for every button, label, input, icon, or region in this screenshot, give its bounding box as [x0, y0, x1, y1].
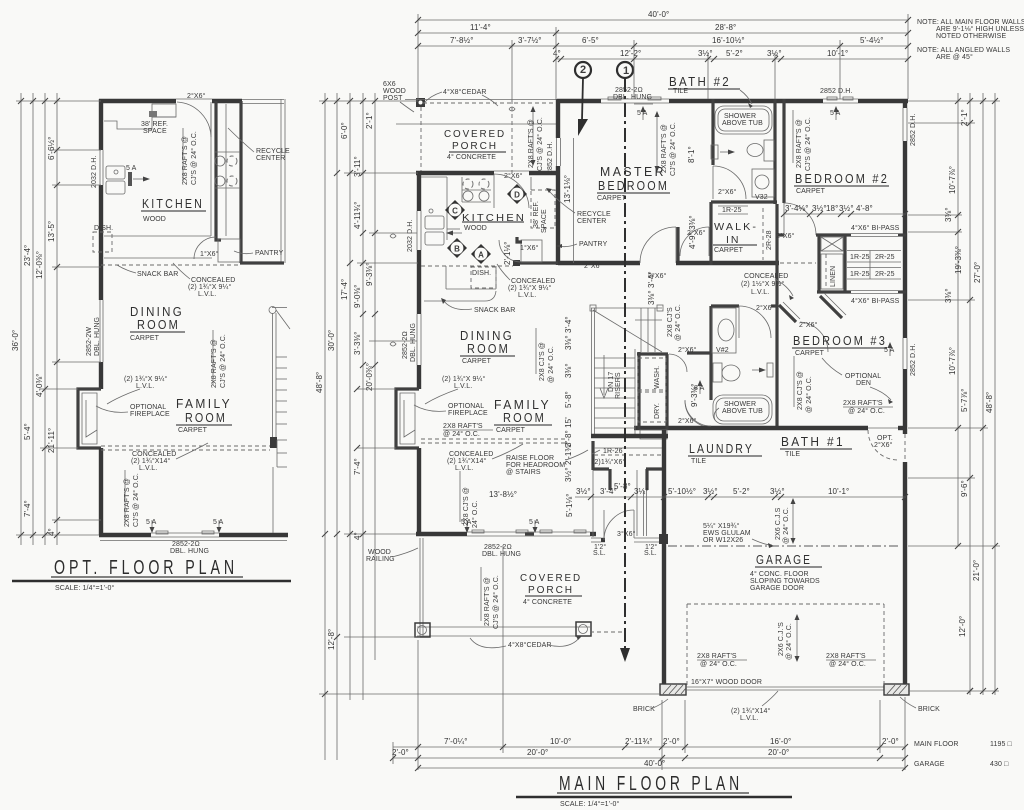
rafter note bedroom2 (rotated)	[796, 119, 803, 168]
svg-text:NOTED OTHERWISE: NOTED OTHERWISE	[936, 33, 1006, 40]
rafter note opt dining (rotated)	[211, 339, 218, 388]
svg-text:CARPET: CARPET	[178, 427, 208, 434]
svg-text:2852-2W: 2852-2W	[86, 327, 93, 356]
linen closet	[821, 254, 843, 289]
svg-text:SCALE: 1/4°=1'-0°: SCALE: 1/4°=1'-0°	[560, 800, 620, 808]
fridge dashed main	[531, 190, 555, 228]
fireplace bump main	[396, 389, 419, 448]
wall: bath2 east	[773, 99, 776, 204]
svg-text:@ 24° O.C.: @ 24° O.C.	[848, 407, 885, 415]
svg-text:ROOM: ROOM	[503, 411, 546, 425]
porch bottom edge	[417, 626, 590, 628]
LEFT PLAN GROUP	[78, 92, 290, 555]
svg-text:5'-2°: 5'-2°	[726, 49, 743, 58]
sa marker master window	[642, 108, 644, 120]
stair treads	[594, 358, 635, 428]
svg-text:5'-10½°: 5'-10½°	[668, 487, 696, 496]
svg-text:CARPET: CARPET	[496, 427, 526, 434]
diamond marker C	[445, 200, 465, 220]
stairs ladder opt right	[269, 307, 276, 314]
TITLES	[12, 557, 792, 808]
svg-text:L.V.L.: L.V.L.	[455, 465, 473, 472]
svg-text:4'-11¾°: 4'-11¾°	[353, 201, 362, 229]
svg-text:2: 2	[580, 64, 586, 76]
closet stubs	[608, 469, 611, 490]
svg-text:OR W12X26: OR W12X26	[703, 537, 743, 544]
svg-text:MAIN FLOOR: MAIN FLOOR	[914, 741, 959, 748]
svg-text:36'-0°: 36'-0°	[11, 330, 20, 351]
svg-text:2852-2Ω: 2852-2Ω	[615, 87, 643, 94]
svg-text:CJ'S @ 24° O.C.: CJ'S @ 24° O.C.	[219, 334, 227, 388]
bipass door bedroom2 closet	[851, 233, 898, 235]
garage bottom pier left	[660, 684, 686, 695]
wall: main left seg4	[417, 448, 421, 536]
wall: bedroom2 south right stub	[898, 233, 906, 236]
section circle 1	[617, 62, 633, 78]
svg-text:3½°: 3½°	[812, 204, 827, 213]
concealed dashed family main	[421, 438, 566, 440]
bottom dim row B	[393, 757, 905, 759]
svg-text:27'-0°: 27'-0°	[973, 262, 982, 283]
svg-text:2°X6°: 2°X6°	[504, 172, 523, 180]
bottom extension lines	[417, 640, 419, 770]
wall: bedroom3 north	[817, 290, 851, 293]
svg-text:10'-1°: 10'-1°	[827, 49, 848, 58]
corner post hall/garage	[659, 534, 668, 544]
wall: walkin west	[709, 202, 712, 265]
svg-text:3¼°: 3¼°	[634, 487, 649, 496]
svg-text:16°X7° WOOD DOOR: 16°X7° WOOD DOOR	[691, 678, 762, 686]
svg-text:BRICK: BRICK	[633, 706, 655, 713]
svg-text:@ 24° O.C.: @ 24° O.C.	[674, 304, 682, 341]
door arc laundry	[669, 354, 687, 372]
pantry south wall	[517, 261, 558, 264]
svg-text:16'-10½°: 16'-10½°	[712, 36, 745, 45]
svg-text:12'-2°: 12'-2°	[620, 49, 641, 58]
sidelight window	[634, 537, 660, 539]
bipass door bedroom3 closet	[851, 290, 898, 292]
svg-text:2°X6°: 2°X6°	[718, 188, 737, 196]
svg-text:A: A	[478, 251, 484, 260]
dim line col3	[44, 93, 46, 545]
svg-text:2X6 C.J.S: 2X6 C.J.S	[775, 507, 782, 540]
svg-text:5'-8°: 5'-8°	[564, 391, 573, 408]
wall: bath2 west upper	[711, 99, 714, 165]
svg-text:20'-0°: 20'-0°	[768, 748, 789, 757]
dim label 21-11	[47, 428, 56, 453]
wall: kitchen top seg1	[416, 171, 494, 175]
svg-text:4'-9° 3⅜°: 4'-9° 3⅜°	[688, 215, 697, 249]
front door gap + arc	[604, 510, 634, 540]
section line 2 stub	[582, 78, 583, 120]
window: bedroom2 top	[823, 98, 858, 100]
door arc bedroom2	[784, 203, 816, 235]
window: bedroom2 right	[902, 108, 904, 141]
wall: bedroom2 south stub	[777, 233, 784, 236]
svg-text:2852-2Ω: 2852-2Ω	[172, 541, 200, 548]
svg-text:(2)1¾°X6°: (2)1¾°X6°	[592, 458, 625, 466]
svg-text:2°X6°: 2°X6°	[187, 92, 206, 100]
svg-text:BATH #2: BATH #2	[669, 75, 731, 89]
svg-text:2R-25: 2R-25	[875, 254, 895, 261]
svg-text:WOOD: WOOD	[368, 549, 391, 556]
svg-text:7'-4°: 7'-4°	[353, 458, 362, 475]
door leaf front	[633, 510, 635, 538]
porch extension line	[396, 123, 557, 125]
wall: right seg3	[903, 369, 907, 434]
wall: south seg right	[898, 426, 906, 430]
snack bar dashed line main	[421, 265, 513, 267]
svg-text:3'-4⅛°: 3'-4⅛°	[785, 204, 809, 213]
wall: right seg4 garage	[903, 462, 907, 689]
svg-text:RECYCLE: RECYCLE	[256, 148, 290, 155]
svg-text:23'-4°: 23'-4°	[23, 245, 32, 266]
svg-text:2852-2Ω: 2852-2Ω	[402, 331, 409, 359]
closet wall west	[817, 235, 820, 293]
dishwasher dashed opt	[93, 232, 112, 252]
rafter note family main (rotated)	[463, 487, 470, 526]
rafter note porch bottom (rotated)	[484, 577, 491, 626]
svg-text:CARPET: CARPET	[714, 247, 744, 254]
svg-text:13'-8½°: 13'-8½°	[489, 490, 517, 499]
bath1 tub	[713, 395, 772, 424]
svg-text:2°X6°: 2°X6°	[678, 346, 697, 354]
closet wall mid	[843, 235, 846, 293]
angled wall bedroom3 nw	[820, 296, 842, 318]
door arc bedroom3	[800, 322, 828, 352]
svg-text:3½°: 3½°	[839, 204, 854, 213]
wall: wd closet top	[637, 352, 668, 355]
svg-text:V#2: V#2	[716, 347, 729, 354]
window: family bottom double	[467, 531, 590, 533]
window: opt bottom double hung	[151, 532, 219, 534]
svg-text:B: B	[454, 245, 460, 254]
svg-text:1195 □: 1195 □	[990, 741, 1012, 748]
wall: opt plan bottom left seg	[99, 533, 151, 537]
dim label 4	[47, 528, 56, 536]
svg-text:(2) 1¾°X14°: (2) 1¾°X14°	[131, 457, 170, 465]
svg-text:2X8 RAFT'S @: 2X8 RAFT'S @	[661, 124, 668, 173]
MAIN PLAN WALLS	[390, 62, 909, 695]
svg-text:CJ'S @ 24° O.C.: CJ'S @ 24° O.C.	[536, 117, 544, 171]
sa marker hall	[699, 382, 701, 394]
svg-text:4°X6° BI-PASS: 4°X6° BI-PASS	[851, 297, 900, 305]
svg-text:L.V.L.: L.V.L.	[751, 289, 769, 296]
svg-text:FIREPLACE: FIREPLACE	[130, 411, 170, 418]
window: opt left dining	[99, 300, 101, 362]
svg-text:1R-25: 1R-25	[850, 254, 870, 261]
bath2 tub	[715, 106, 772, 134]
wall: opt plan top left segment	[99, 99, 176, 103]
left col labels	[315, 372, 324, 393]
svg-text:@ 24° O.C.: @ 24° O.C.	[443, 430, 480, 438]
top dim row 4	[556, 58, 908, 60]
svg-text:2852 D.H.: 2852 D.H.	[820, 88, 852, 95]
svg-text:CJ'S @ 24° O.C.: CJ'S @ 24° O.C.	[669, 122, 677, 176]
window label 2032 dh opt (rotated)	[91, 156, 98, 188]
svg-text:RISERS: RISERS	[615, 372, 622, 399]
svg-text:CONCEALED: CONCEALED	[744, 273, 788, 280]
svg-text:6X6: 6X6	[383, 81, 396, 88]
svg-text:16'-0°: 16'-0°	[770, 737, 791, 746]
door header opt top	[176, 98, 212, 100]
svg-text:DINING: DINING	[460, 329, 514, 343]
wall: kitchen/master east wall	[556, 99, 560, 138]
svg-text:1R-26: 1R-26	[603, 448, 623, 455]
door arc hall-bath1	[685, 400, 711, 426]
svg-text:@ STAIRS: @ STAIRS	[506, 469, 541, 476]
svg-text:(2) 1¾°X14°: (2) 1¾°X14°	[731, 707, 770, 715]
svg-text:5 A: 5 A	[637, 110, 648, 117]
rafter note dining main (rotated)	[539, 342, 546, 381]
svg-text:8'-1°: 8'-1°	[687, 146, 696, 163]
section circle 2	[575, 62, 591, 78]
svg-text:5'-1⅛°: 5'-1⅛°	[565, 493, 574, 517]
svg-text:(2) 1¾°X14°: (2) 1¾°X14°	[447, 457, 486, 465]
svg-text:S.L.: S.L.	[644, 550, 657, 557]
garage door line	[686, 689, 884, 691]
svg-text:4°: 4°	[47, 528, 56, 536]
svg-text:30'-0°: 30'-0°	[327, 330, 336, 351]
porch dashed line to section	[590, 631, 625, 633]
svg-text:13'-1⅛°: 13'-1⅛°	[563, 175, 572, 203]
svg-text:2°X6°: 2°X6°	[584, 262, 603, 270]
wall: opt plan left below fireplace	[99, 448, 103, 535]
wall: laundry west / stairs east	[637, 352, 640, 430]
svg-text:GARAGE DOOR: GARAGE DOOR	[750, 585, 804, 592]
wall: family bottom seg2	[590, 532, 596, 536]
svg-text:3⅜°: 3⅜°	[944, 288, 953, 303]
bath2 sink marker	[711, 145, 718, 159]
wall: opt plan right edge upper	[280, 99, 282, 263]
svg-text:3½°: 3½°	[767, 49, 782, 58]
svg-text:DBL. HUNG: DBL. HUNG	[613, 94, 652, 101]
bottom dim row C	[418, 767, 905, 769]
svg-text:ABOVE TUB: ABOVE TUB	[722, 408, 763, 415]
top dim row 2	[418, 32, 908, 34]
kitchen counter edge main	[446, 177, 448, 240]
section line 1 vertical	[624, 78, 626, 652]
svg-text:PORCH: PORCH	[452, 140, 498, 152]
svg-text:1°X6°: 1°X6°	[520, 244, 539, 252]
svg-text:ABOVE TUB: ABOVE TUB	[722, 120, 763, 127]
dishwasher dashed main	[471, 267, 496, 288]
wall: opt plan left lower	[99, 362, 103, 389]
svg-text:@ 24° O.C.: @ 24° O.C.	[782, 507, 790, 544]
svg-text:@ 24° O.C.: @ 24° O.C.	[805, 376, 813, 413]
wall: opt plan left mid	[99, 185, 103, 300]
snack bar dashed opt	[101, 264, 240, 266]
svg-text:CARPET: CARPET	[462, 358, 492, 365]
svg-text:9'-3⅜°: 9'-3⅜°	[690, 383, 699, 407]
sa marker opt kitchen	[128, 172, 132, 186]
sidelight left	[591, 537, 601, 539]
right col extension stubs	[908, 100, 1000, 102]
label window right rotated	[910, 114, 917, 146]
svg-text:40'-0°: 40'-0°	[648, 10, 669, 19]
svg-text:4°X8°CEDAR: 4°X8°CEDAR	[443, 88, 487, 96]
svg-text:3⅜° 3'-4°: 3⅜° 3'-4°	[564, 316, 573, 350]
svg-text:2°X6°: 2°X6°	[756, 304, 775, 312]
top tick slashes	[415, 17, 911, 62]
wall: main left seg2	[417, 250, 421, 314]
wall: kitchen top seg2	[529, 171, 558, 175]
svg-text:4° CONC. FLOOR: 4° CONC. FLOOR	[750, 570, 809, 578]
svg-text:1R-25: 1R-25	[850, 271, 870, 278]
svg-text:5 A: 5 A	[213, 519, 224, 526]
porch post bottom left	[415, 623, 430, 637]
svg-text:4°X6° BI-PASS: 4°X6° BI-PASS	[851, 224, 900, 232]
svg-text:2X8 RAFT'S: 2X8 RAFT'S	[697, 653, 737, 660]
dim label 13-5	[47, 221, 56, 242]
svg-text:TILE: TILE	[673, 88, 688, 95]
wall: stair south	[591, 434, 668, 438]
porch top edge line	[405, 99, 557, 101]
svg-text:(2) 1¾°X 9¼°: (2) 1¾°X 9¼°	[188, 283, 231, 291]
svg-text:5'-8°: 5'-8°	[614, 482, 631, 491]
svg-text:MAIN FLOOR PLAN: MAIN FLOOR PLAN	[559, 773, 743, 795]
walkin shelf dashed	[762, 208, 764, 260]
interior dim row hall y497	[575, 496, 906, 498]
wall: family bottom seg1	[416, 532, 467, 536]
svg-text:4° CONCRETE: 4° CONCRETE	[523, 598, 572, 606]
island outline main	[445, 266, 447, 289]
svg-text:2852 D.H.: 2852 D.H.	[547, 142, 554, 174]
svg-text:1R-25: 1R-25	[722, 207, 742, 214]
svg-text:D: D	[514, 191, 520, 200]
porch center dashed vertical	[511, 100, 513, 173]
dim label 5-4	[23, 423, 32, 440]
svg-text:2032 D.H.: 2032 D.H.	[407, 220, 414, 252]
diamond marker B	[447, 238, 467, 258]
wall: opt plan left upper	[99, 99, 103, 150]
dim line col4	[56, 93, 58, 545]
svg-text:2X8 CJ'S: 2X8 CJ'S	[667, 307, 674, 337]
svg-text:CJ'S @ 24° O.C.: CJ'S @ 24° O.C.	[804, 117, 812, 171]
garage bottom pier right	[884, 684, 909, 695]
svg-text:3½°: 3½°	[576, 487, 591, 496]
label linen (rotated)	[830, 266, 837, 287]
vestibule walls	[636, 470, 638, 536]
svg-text:6'-5°: 6'-5°	[582, 36, 599, 45]
rafter note master (rotated)	[661, 124, 668, 173]
svg-text:BEDROOM: BEDROOM	[598, 179, 669, 193]
svg-text:2°X6°: 2°X6°	[874, 441, 893, 449]
svg-text:2'-11¾°: 2'-11¾°	[625, 737, 653, 746]
snack bar counter front	[424, 291, 496, 301]
svg-text:2'-0°: 2'-0°	[663, 737, 680, 746]
cooktop opt burners	[215, 156, 225, 166]
hall west wall lower	[592, 470, 594, 537]
svg-text:CJ'S @ 24° O.C.: CJ'S @ 24° O.C.	[492, 575, 500, 629]
bottom dim row A	[393, 746, 905, 748]
top tick stubs	[16, 100, 101, 102]
porch post top left	[416, 98, 425, 107]
svg-text:L.V.L.: L.V.L.	[454, 383, 472, 390]
svg-text:2X6 C.J.'S: 2X6 C.J.'S	[778, 622, 785, 656]
svg-text:(2) 1¾°X 9¼°: (2) 1¾°X 9¼°	[508, 284, 551, 292]
svg-text:DINING: DINING	[130, 305, 184, 319]
svg-text:430 □: 430 □	[990, 761, 1009, 768]
svg-text:FAMILY: FAMILY	[494, 398, 551, 412]
MAIN PLAN DIMS	[315, 10, 1012, 771]
wall: bath1 north stubs	[711, 304, 739, 307]
top dim row 3	[418, 45, 908, 47]
right dim column	[957, 93, 959, 546]
svg-text:DBL. HUNG: DBL. HUNG	[410, 323, 417, 362]
svg-text:2852-2Ω: 2852-2Ω	[484, 544, 512, 551]
svg-text:OPTIONAL: OPTIONAL	[448, 403, 484, 410]
wall: bath2 south	[711, 200, 777, 203]
wall: hall east	[775, 204, 778, 302]
stairs shaft	[591, 308, 593, 436]
svg-text:RECYCLE: RECYCLE	[577, 211, 611, 218]
dim label 6-6h	[47, 136, 56, 160]
svg-text:CONCEALED: CONCEALED	[191, 277, 235, 284]
svg-text:2'-0°: 2'-0°	[882, 737, 899, 746]
svg-text:CJ'S @ 24° O.C.: CJ'S @ 24° O.C.	[190, 131, 198, 185]
svg-text:5'-4½°: 5'-4½°	[860, 36, 884, 45]
svg-text:ROOM: ROOM	[467, 342, 510, 356]
svg-text:WALK-: WALK-	[714, 221, 758, 233]
svg-text:BEDROOM #2: BEDROOM #2	[795, 172, 889, 186]
svg-text:4'-0⅜°: 4'-0⅜°	[35, 373, 44, 397]
porch bottom left edge	[419, 538, 421, 636]
svg-text:SPACE: SPACE	[541, 209, 548, 233]
door arc bath2	[713, 166, 746, 199]
svg-text:1°X6°: 1°X6°	[200, 250, 219, 258]
wall: laundry/bath/bed3 south	[634, 426, 868, 430]
svg-text:10'-0°: 10'-0°	[550, 737, 571, 746]
svg-text:5 A: 5 A	[146, 519, 157, 526]
svg-text:SHOWER: SHOWER	[724, 113, 756, 120]
bath1 vanity	[712, 308, 736, 353]
svg-text:7'-4°: 7'-4°	[23, 500, 32, 517]
window: opt left sink	[99, 150, 101, 185]
svg-text:BEDROOM #3: BEDROOM #3	[793, 334, 887, 348]
wall: bath1 east	[775, 302, 778, 427]
svg-text:OPT.: OPT.	[877, 435, 893, 442]
svg-text:2X8 CJ'S @: 2X8 CJ'S @	[463, 487, 470, 526]
svg-text:SLOPING TOWARDS: SLOPING TOWARDS	[750, 578, 820, 585]
svg-text:2'-1°: 2'-1°	[960, 109, 969, 126]
wall: wd closet east	[665, 354, 668, 430]
svg-text:PORCH: PORCH	[528, 584, 574, 596]
svg-text:GARAGE: GARAGE	[756, 553, 812, 567]
pantry box main	[521, 240, 542, 262]
svg-text:48'-8°: 48'-8°	[985, 392, 994, 413]
svg-text:11'-4°: 11'-4°	[470, 23, 491, 32]
MAIN PLAN TEXT	[366, 19, 1024, 722]
bath2 vanity	[752, 169, 774, 197]
svg-text:@ 24° O.C.: @ 24° O.C.	[547, 346, 555, 383]
dim line col1	[20, 93, 22, 545]
svg-text:12'-0⅜°: 12'-0⅜°	[35, 251, 44, 279]
svg-text:12'-0°: 12'-0°	[958, 616, 967, 637]
wall: main left seg3	[417, 365, 421, 389]
svg-text:17'-4°: 17'-4°	[340, 279, 349, 300]
svg-text:21'-11°: 21'-11°	[47, 428, 56, 453]
opt door dashed right wall	[904, 434, 906, 462]
svg-text:DBL. HUNG: DBL. HUNG	[170, 548, 209, 555]
entry closet below stairs	[591, 441, 594, 470]
svg-text:WASH.: WASH.	[654, 366, 661, 389]
svg-text:PANTRY: PANTRY	[255, 250, 284, 257]
wall: pantry opt	[216, 236, 221, 240]
kitchen island lines	[447, 228, 460, 230]
wd closet dryer dashed	[638, 392, 666, 422]
svg-text:SNACK BAR: SNACK BAR	[137, 271, 178, 278]
